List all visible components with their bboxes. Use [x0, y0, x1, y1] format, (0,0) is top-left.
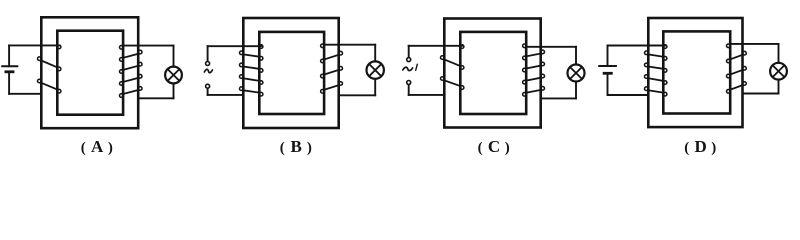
svg-text:): )	[307, 140, 312, 156]
svg-text:): )	[711, 140, 716, 156]
svg-text:(: (	[684, 140, 689, 156]
svg-text:B: B	[291, 137, 302, 156]
svg-text:): )	[108, 140, 113, 156]
svg-text:D: D	[694, 137, 706, 156]
svg-text:(: (	[280, 140, 285, 156]
svg-text:C: C	[488, 137, 500, 156]
svg-text:(: (	[478, 140, 483, 156]
svg-text:A: A	[91, 137, 104, 156]
svg-text:): )	[505, 140, 510, 156]
svg-text:(: (	[81, 140, 86, 156]
